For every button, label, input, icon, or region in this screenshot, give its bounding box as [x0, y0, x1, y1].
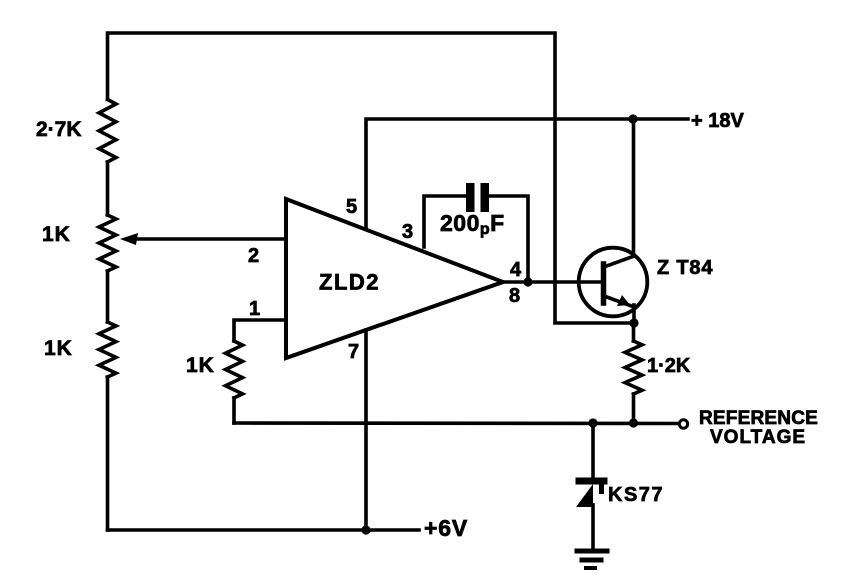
svg-text:REFERENCE: REFERENCE — [699, 408, 818, 429]
svg-text:7: 7 — [348, 341, 359, 363]
svg-text:5: 5 — [346, 196, 357, 218]
svg-text:Z T84: Z T84 — [657, 257, 713, 279]
svg-text:1K: 1K — [42, 223, 71, 246]
svg-text:8: 8 — [509, 285, 520, 307]
svg-text:2: 2 — [248, 245, 259, 267]
svg-text:3: 3 — [402, 221, 413, 243]
svg-text:1K: 1K — [186, 354, 215, 377]
svg-text:4: 4 — [510, 259, 522, 281]
svg-text:200pF: 200pF — [440, 210, 505, 238]
svg-text:1: 1 — [249, 298, 260, 320]
svg-text:+ 18V: + 18V — [691, 110, 744, 132]
svg-text:+6V: +6V — [424, 515, 468, 541]
svg-text:1K: 1K — [44, 337, 73, 360]
svg-text:KS77: KS77 — [608, 484, 664, 506]
svg-text:ZLD2: ZLD2 — [319, 270, 380, 295]
svg-text:1·2K: 1·2K — [647, 355, 691, 377]
svg-text:2·7K: 2·7K — [36, 118, 82, 141]
svg-text:VOLTAGE: VOLTAGE — [710, 427, 806, 448]
